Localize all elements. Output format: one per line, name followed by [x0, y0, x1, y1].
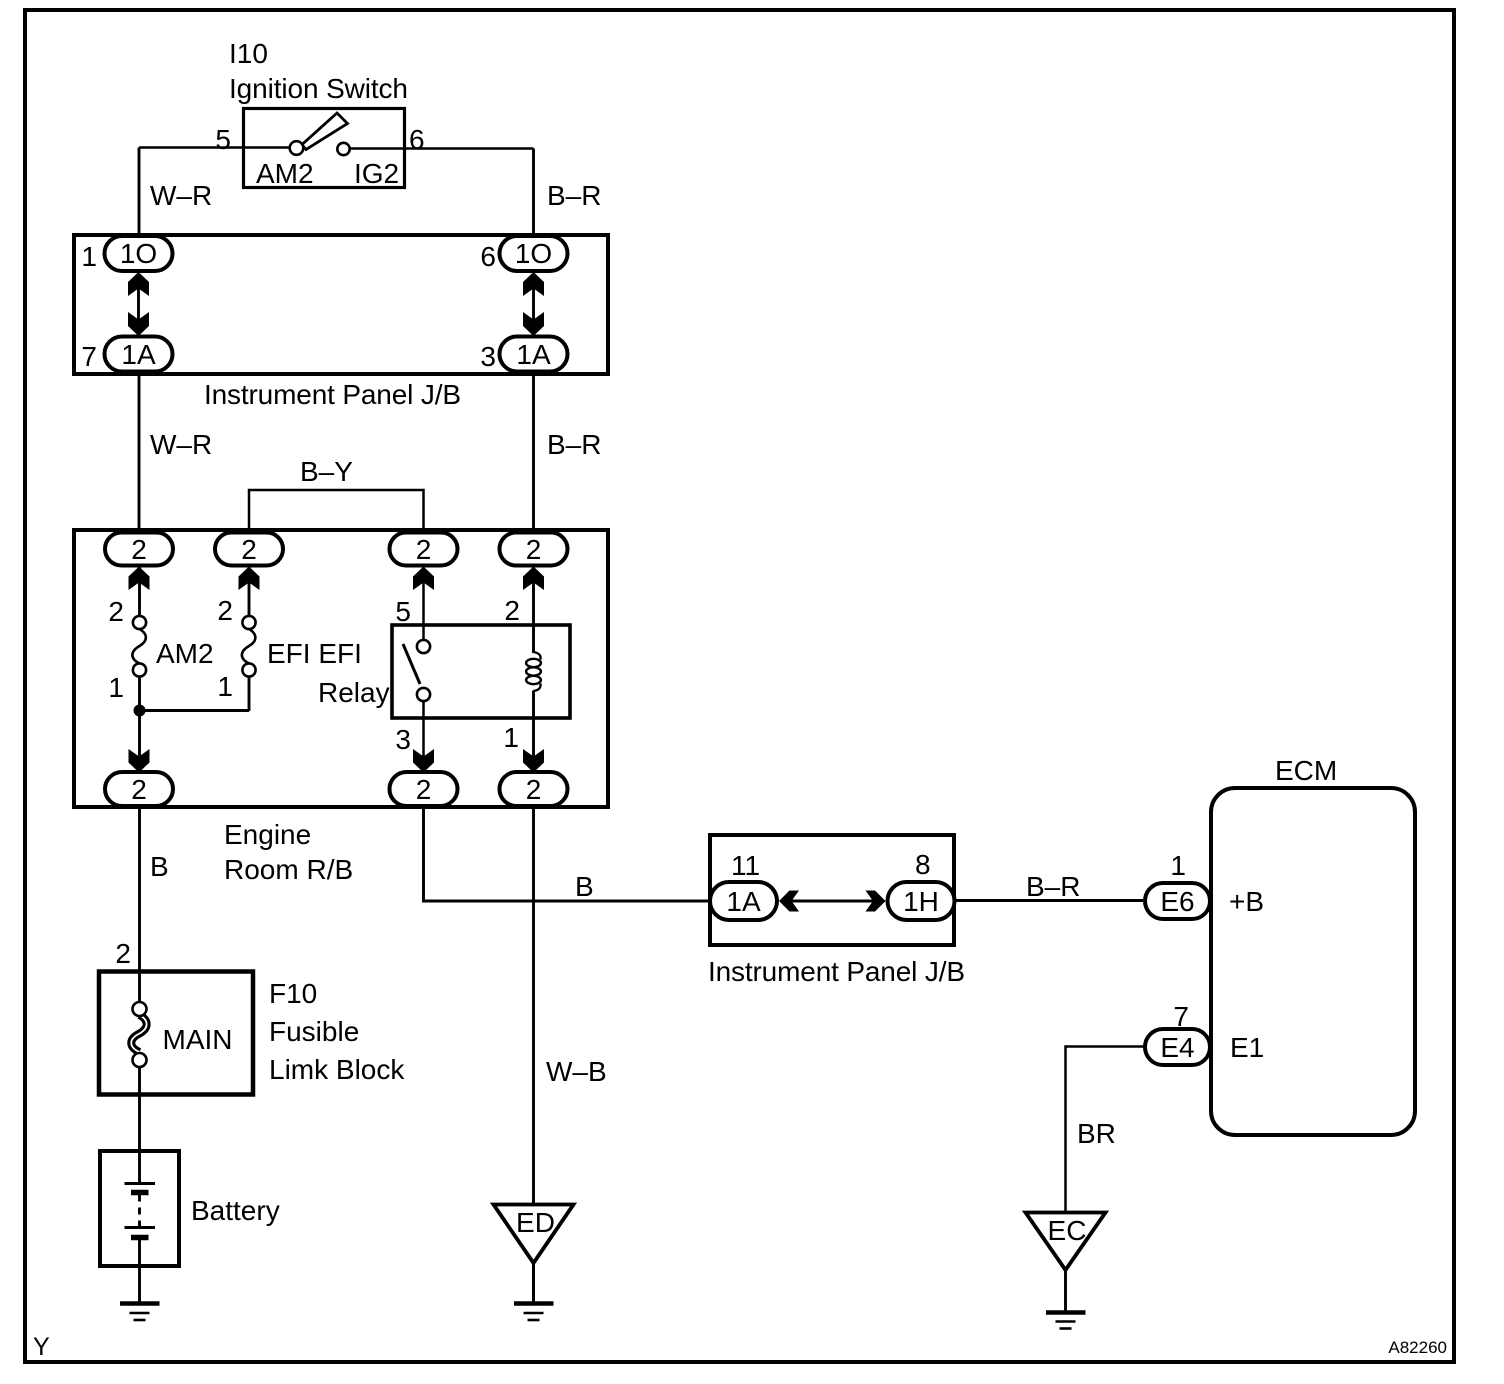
- arrow up right: [523, 272, 544, 296]
- relay switch lever: [403, 644, 420, 684]
- terminal oval 1A: [710, 882, 777, 920]
- ground ED: [514, 1301, 554, 1306]
- fuse AM2 wire: [138, 566, 141, 617]
- svg-text:Battery: Battery: [191, 1195, 280, 1226]
- wire ED to ground: [532, 1263, 535, 1303]
- svg-text:B–R: B–R: [547, 429, 601, 460]
- EFI relay box: [392, 625, 570, 718]
- svg-text:E1: E1: [1230, 1032, 1264, 1063]
- battery plate long top: [125, 1182, 156, 1185]
- svg-text:Relay: Relay: [318, 677, 390, 708]
- svg-text:5: 5: [395, 596, 411, 627]
- connector line 1A-1H: [783, 900, 882, 903]
- arrow down right: [523, 312, 544, 336]
- junction dot: [134, 705, 146, 717]
- svg-text:7: 7: [1173, 1001, 1189, 1032]
- svg-text:I10: I10: [229, 38, 268, 69]
- svg-text:1: 1: [1170, 850, 1186, 881]
- terminal oval 1H: [888, 882, 955, 920]
- terminal oval E4: [1145, 1029, 1210, 1065]
- wire AM2 to EFI link: [140, 709, 250, 712]
- arrows up at top ovals: [129, 567, 150, 591]
- svg-text:2: 2: [241, 534, 257, 565]
- switch lever: [302, 113, 348, 150]
- ground EC: [1046, 1310, 1086, 1315]
- svg-text:Limk Block: Limk Block: [269, 1054, 405, 1085]
- relay coil wire pin2: [532, 566, 535, 653]
- fusible link MAIN element: [131, 1015, 146, 1052]
- svg-text:1A: 1A: [726, 886, 761, 917]
- svg-text:Fusible: Fusible: [269, 1016, 359, 1047]
- battery plate long bottom: [125, 1226, 156, 1229]
- svg-text:ED: ED: [516, 1207, 555, 1238]
- svg-text:B: B: [575, 871, 594, 902]
- fuse AM2 element: [132, 629, 146, 664]
- svg-text:Ignition Switch: Ignition Switch: [229, 73, 408, 104]
- svg-text:1O: 1O: [120, 238, 157, 269]
- svg-text:7: 7: [81, 341, 97, 372]
- svg-text:2: 2: [504, 595, 520, 626]
- connector line right 1O-1A: [532, 280, 535, 330]
- wire IG2 out right horizontal: [344, 147, 534, 150]
- svg-text:2: 2: [131, 774, 147, 805]
- svg-text:2: 2: [115, 938, 131, 969]
- svg-text:B–R: B–R: [547, 180, 601, 211]
- terminal oval 1A left: [105, 337, 173, 372]
- wire B-R to ECM: [954, 899, 1146, 902]
- svg-text:6: 6: [480, 241, 496, 272]
- svg-text:2: 2: [131, 534, 147, 565]
- terminal oval 1O right: [500, 236, 568, 271]
- wire W-R down to J/B: [138, 148, 141, 238]
- svg-text:3: 3: [395, 724, 411, 755]
- battery box: [100, 1151, 179, 1266]
- svg-text:Room R/B: Room R/B: [224, 854, 353, 885]
- connector line left 1O-1A: [137, 280, 140, 330]
- wire EC to ground: [1064, 1270, 1067, 1312]
- svg-text:2: 2: [526, 534, 542, 565]
- svg-text:E4: E4: [1160, 1032, 1194, 1063]
- arrow up left: [128, 272, 149, 296]
- terminal ovals 2 bottom row: [105, 772, 173, 806]
- svg-text:Instrument Panel J/B: Instrument Panel J/B: [204, 379, 461, 410]
- svg-text:B: B: [150, 851, 169, 882]
- arrow left: [779, 891, 799, 912]
- svg-text:1: 1: [108, 672, 124, 703]
- fuse EFI wire: [248, 566, 251, 617]
- svg-text:1: 1: [81, 241, 97, 272]
- relay contact top: [417, 640, 430, 653]
- svg-text:2: 2: [416, 774, 432, 805]
- svg-text:2: 2: [108, 596, 124, 627]
- svg-text:Engine: Engine: [224, 819, 311, 850]
- fuse EFI element: [242, 629, 256, 664]
- ground battery: [120, 1301, 160, 1306]
- svg-text:EFI EFI: EFI EFI: [267, 638, 362, 669]
- relay contact wire pin5: [422, 566, 425, 641]
- terminal oval 1A right: [500, 337, 568, 372]
- svg-text:E6: E6: [1160, 886, 1194, 917]
- wire BR from E4: [1066, 1047, 1146, 1212]
- ECM box: [1211, 788, 1415, 1135]
- terminal oval E6: [1145, 883, 1210, 919]
- junction block Instrument Panel J/B upper box: [74, 235, 608, 374]
- battery plate short top: [131, 1190, 149, 1196]
- arrows down at bottom ovals: [129, 749, 150, 773]
- svg-text:W–R: W–R: [150, 429, 212, 460]
- battery internal wire top: [138, 1151, 141, 1182]
- relay contact bottom: [417, 688, 430, 701]
- ignition switch box I10: [244, 109, 405, 188]
- svg-text:1A: 1A: [121, 339, 156, 370]
- wire B relay to J/B: [424, 806, 713, 901]
- svg-text:1A: 1A: [516, 339, 551, 370]
- wire W-B down to ED: [532, 806, 535, 1204]
- svg-text:1: 1: [503, 722, 519, 753]
- svg-text:1H: 1H: [903, 886, 939, 917]
- wire AM2 feed left horizontal: [139, 146, 296, 149]
- relay coil: [526, 659, 541, 667]
- svg-text:B–Y: B–Y: [300, 456, 353, 487]
- svg-text:W–B: W–B: [546, 1056, 607, 1087]
- svg-text:8: 8: [915, 849, 931, 880]
- svg-text:AM2: AM2: [256, 158, 314, 189]
- wire W-R J/B to R/B: [138, 374, 141, 535]
- svg-text:2: 2: [217, 595, 233, 626]
- terminal oval 1O left: [105, 236, 173, 271]
- arrow right: [866, 891, 886, 912]
- wire B to fusible link: [138, 806, 141, 971]
- arrow down left: [128, 312, 149, 336]
- switch contact AM2: [290, 141, 304, 155]
- svg-text:AM2: AM2: [156, 638, 214, 669]
- battery plate short bottom: [131, 1235, 149, 1241]
- svg-text:11: 11: [731, 850, 760, 881]
- svg-text:2: 2: [526, 774, 542, 805]
- svg-text:5: 5: [215, 124, 231, 155]
- wire B-R down to J/B: [532, 149, 535, 238]
- ground triangle EC: [1026, 1213, 1106, 1271]
- svg-text:3: 3: [480, 341, 496, 372]
- svg-text:EC: EC: [1048, 1215, 1087, 1246]
- junction block Instrument Panel J/B lower box: [710, 835, 954, 945]
- ground triangle ED: [494, 1205, 574, 1264]
- svg-text:MAIN: MAIN: [163, 1024, 233, 1055]
- svg-text:6: 6: [409, 124, 425, 155]
- svg-text:ECM: ECM: [1275, 755, 1337, 786]
- relay block Engine Room R/B box: [74, 530, 608, 807]
- wire B-Y loop: [249, 490, 424, 535]
- svg-text:IG2: IG2: [354, 158, 399, 189]
- svg-text:+B: +B: [1229, 886, 1264, 917]
- battery dashed link: [138, 1195, 141, 1228]
- svg-text:1O: 1O: [515, 238, 552, 269]
- terminal ovals 2 top row: [105, 533, 173, 566]
- svg-text:Instrument Panel J/B: Instrument Panel J/B: [708, 956, 965, 987]
- svg-text:BR: BR: [1077, 1118, 1116, 1149]
- svg-text:W–R: W–R: [150, 180, 212, 211]
- svg-text:2: 2: [416, 534, 432, 565]
- fusible link MAIN wire: [138, 971, 141, 1003]
- svg-text:B–R: B–R: [1026, 871, 1080, 902]
- fusible link block F10 box: [99, 972, 253, 1095]
- svg-text:Y: Y: [33, 1333, 50, 1361]
- switch contact IG2: [337, 143, 349, 155]
- svg-text:F10: F10: [269, 978, 317, 1009]
- svg-text:A82260: A82260: [1388, 1338, 1447, 1357]
- svg-text:1: 1: [217, 671, 233, 702]
- wire B-R J/B to R/B: [532, 374, 535, 535]
- battery internal wire bottom: [138, 1240, 141, 1303]
